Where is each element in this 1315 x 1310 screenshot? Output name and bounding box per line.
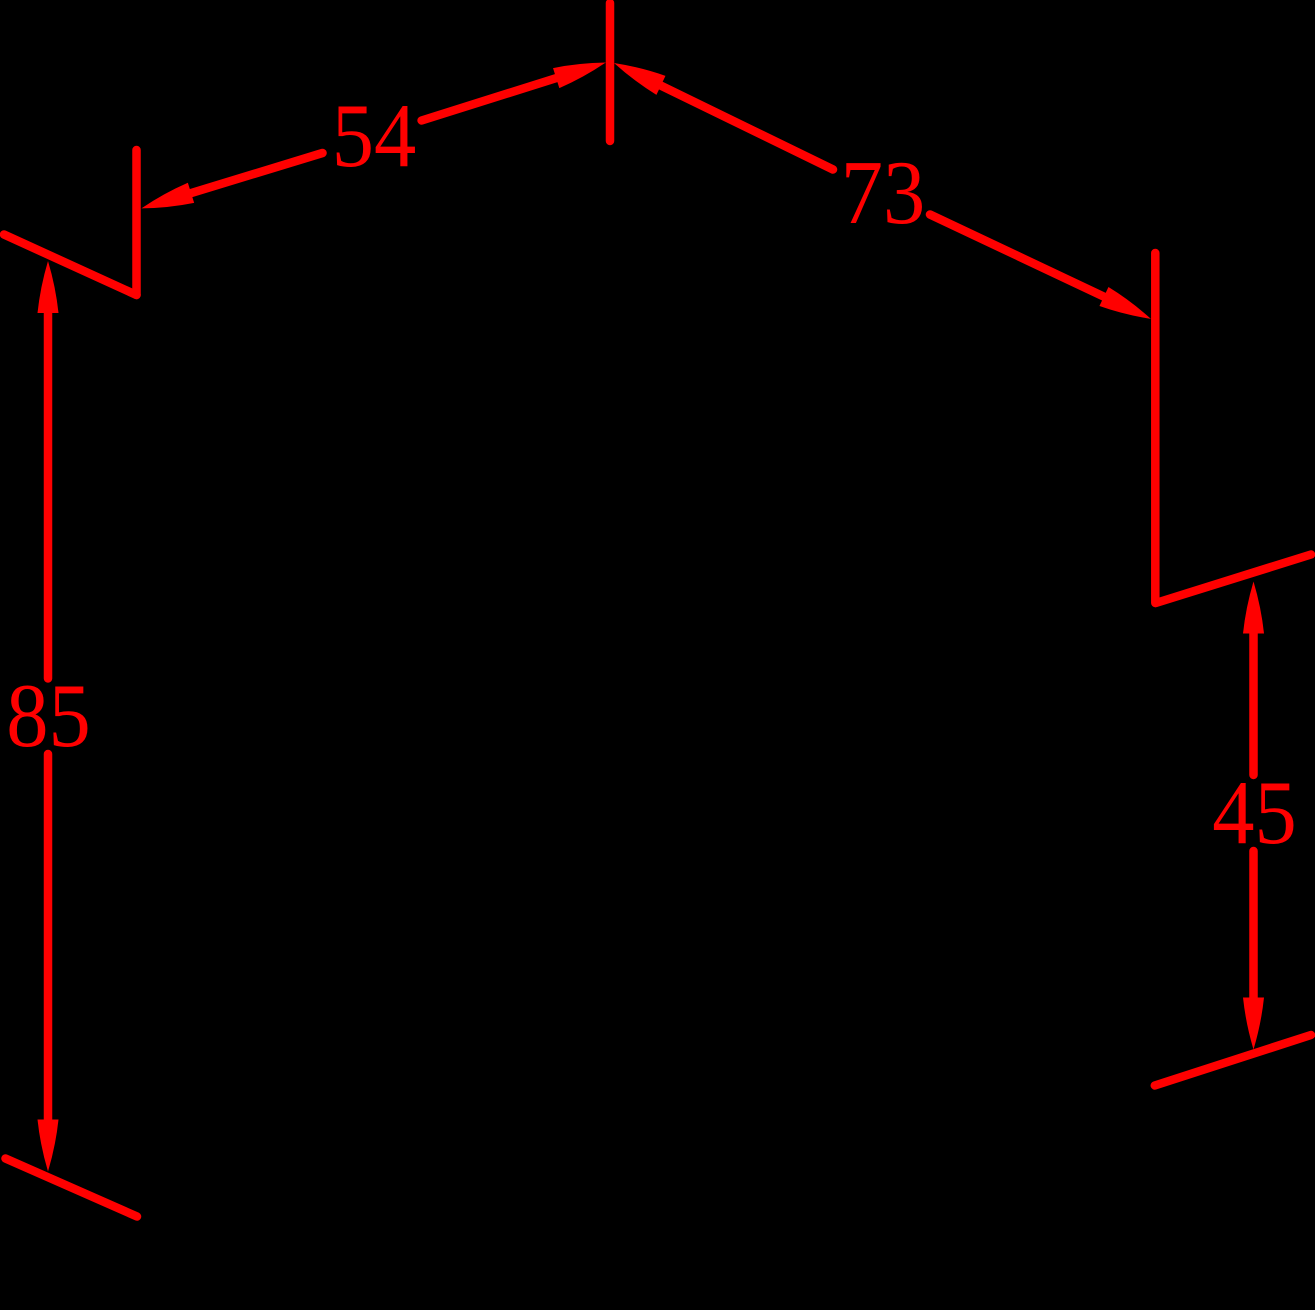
extension line top center vertical (606, 3, 615, 141)
extension line left vertical (132, 150, 141, 295)
extension line top-right slanted (1156, 555, 1311, 604)
dimension line 54 right segment (422, 69, 587, 121)
svg-text:73: 73 (841, 142, 926, 243)
extension line bottom-right slanted (1155, 1035, 1311, 1086)
arrowhead 54 right (553, 52, 609, 88)
extension line right vertical (1151, 253, 1160, 603)
arrowhead 54 left (138, 183, 194, 219)
dimension line 54 left segment (161, 153, 323, 202)
dimension line 85 upper segment (44, 281, 53, 679)
arrowhead 73 left (609, 54, 665, 95)
dimension line 45 upper segment (1249, 602, 1258, 776)
extension line top-left slanted (4, 235, 137, 296)
arrowhead 45 top (1243, 582, 1264, 634)
arrowhead 85 top (38, 261, 59, 313)
dimension line 73 left segment (632, 72, 833, 170)
svg-text:45: 45 (1212, 762, 1297, 863)
extension line bottom-left slanted (6, 1159, 138, 1217)
svg-text:54: 54 (332, 85, 417, 186)
dimension line 85 lower segment (44, 754, 53, 1150)
svg-text:85: 85 (6, 665, 91, 766)
dimension line 45 lower segment (1249, 851, 1258, 1028)
arrowhead 45 bottom (1243, 998, 1264, 1050)
arrowhead 73 right (1099, 287, 1155, 328)
arrowhead 85 bottom (38, 1120, 59, 1172)
dimension line 73 right segment (930, 215, 1133, 311)
